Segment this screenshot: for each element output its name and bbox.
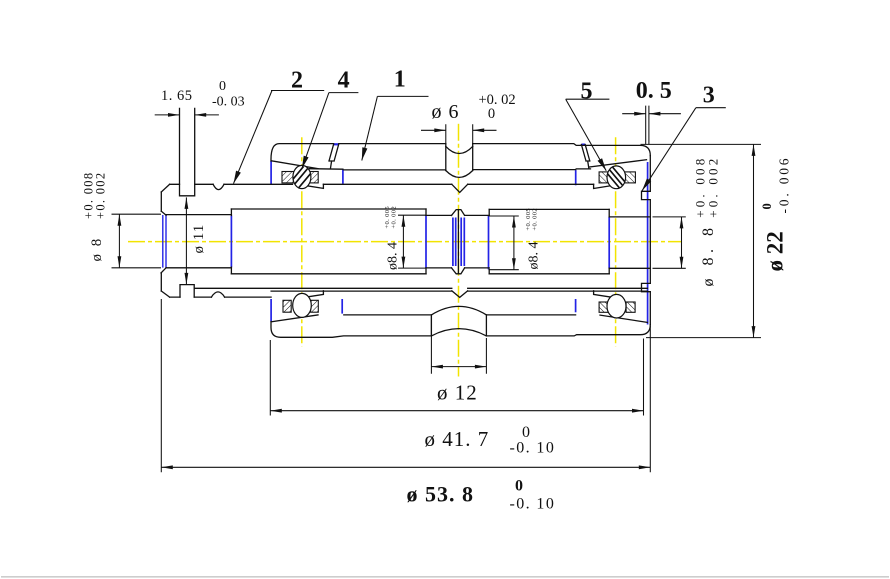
svg-text:-0. 10: -0. 10 xyxy=(510,496,556,513)
retainer slot left xyxy=(329,144,339,169)
svg-text:3: 3 xyxy=(703,83,715,109)
groove wall right xyxy=(472,144,474,171)
blue edge left end chamfer inner xyxy=(162,215,164,268)
svg-text:0: 0 xyxy=(515,478,523,495)
neck bottom lines xyxy=(426,267,489,269)
bearing outer race section top-right xyxy=(599,172,635,183)
svg-text:ø8. 4: ø8. 4 xyxy=(527,242,542,270)
svg-text:ø 22: ø 22 xyxy=(763,231,788,271)
shaft top slant right xyxy=(589,160,646,167)
bearing ball bottom-left xyxy=(293,293,312,317)
neck top chamfer xyxy=(452,210,465,216)
hump arc upper xyxy=(431,306,486,315)
blue edge right shaft step xyxy=(608,217,610,268)
keyseat slot walls 1.65 xyxy=(180,108,195,195)
neck center edge xyxy=(457,210,459,274)
mid rect right bottom xyxy=(489,273,609,275)
dim phi8 arrow line xyxy=(118,214,120,268)
retainer slot right xyxy=(581,145,589,169)
svg-text:-0. 03: -0. 03 xyxy=(212,95,245,110)
left shaft end chamfer bottom xyxy=(161,268,166,273)
svg-text:0. 5: 0. 5 xyxy=(636,78,672,104)
svg-text:ø 11: ø 11 xyxy=(191,224,207,254)
svg-text:+0. 002: +0. 002 xyxy=(531,208,538,231)
inner bottom line y315 xyxy=(344,314,576,316)
dim phi22 arrow line xyxy=(753,144,755,337)
shaft top line y169 xyxy=(310,169,591,170)
dim phi6 arrows xyxy=(421,129,446,131)
svg-text:1. 65: 1. 65 xyxy=(161,88,193,104)
svg-text:2: 2 xyxy=(291,68,303,94)
dim phi12 extensions xyxy=(431,316,486,374)
svg-text:ø 41. 7: ø 41. 7 xyxy=(425,427,490,451)
body top edge y184 xyxy=(170,183,594,185)
top vee notch center xyxy=(452,184,468,192)
right small shaft bottom line xyxy=(609,267,650,269)
svg-text:-0. 10: -0. 10 xyxy=(510,440,556,457)
mid rect left top xyxy=(231,208,426,210)
neck top lines xyxy=(426,214,489,216)
blue edge neck 1 xyxy=(452,218,454,267)
bottom slant left xyxy=(271,315,318,322)
housing sleeve outer top line xyxy=(271,144,650,161)
leader balloon 1 xyxy=(377,95,428,97)
svg-text:-0. 006: -0. 006 xyxy=(777,156,792,214)
bearing ball top-left xyxy=(292,165,312,188)
blue edge sleeve bore left lower xyxy=(270,299,272,322)
svg-text:4: 4 xyxy=(338,68,350,94)
border baseline xyxy=(1,576,889,578)
svg-text:ø8. 4: ø8. 4 xyxy=(386,242,401,270)
body bottom edge y297 xyxy=(170,296,272,298)
blue edge shaft step top right xyxy=(575,170,577,185)
blue tick left slot opening xyxy=(334,143,339,145)
under-ball slant right bottom xyxy=(594,291,614,298)
svg-text:ø 8. 8: ø 8. 8 xyxy=(700,224,717,287)
svg-text:+0. 002: +0. 002 xyxy=(94,172,108,219)
blue edge left end chamfer outer xyxy=(165,215,167,268)
svg-text:0: 0 xyxy=(488,106,495,122)
left shaft end chamfer top xyxy=(161,211,166,215)
svg-text:+0. 002: +0. 002 xyxy=(390,206,397,229)
blue edge shaft step bottom right xyxy=(575,299,577,312)
leader balloon 2 xyxy=(271,90,324,92)
centerline left bearing axis xyxy=(301,137,303,346)
bearing ball bottom-right xyxy=(607,294,626,318)
svg-text:ø 6: ø 6 xyxy=(432,101,460,123)
hump arc lower xyxy=(431,329,486,336)
centerline middle axis xyxy=(458,124,460,377)
small shaft left bottom line xyxy=(166,267,231,269)
centerline right bearing axis xyxy=(615,137,617,346)
dim phi8.4 right arrow line xyxy=(513,216,515,270)
dim phi22 extensions xyxy=(641,144,762,337)
blue edge shaft step bottom left xyxy=(341,299,343,314)
blue edge shaft step top left xyxy=(342,169,344,184)
leader balloon 5 xyxy=(566,98,610,100)
svg-text:1: 1 xyxy=(394,67,406,93)
body top notch arc xyxy=(213,184,224,189)
mid rect right top xyxy=(489,208,609,210)
small shaft left top line xyxy=(166,214,231,216)
dim phi8.4 left arrow line xyxy=(402,215,404,268)
groove arc lower xyxy=(446,171,473,178)
dim 0.5 arrows xyxy=(622,113,646,115)
svg-text:5: 5 xyxy=(581,78,593,104)
neck bottom chamfer xyxy=(452,268,465,274)
dim phi41.7 arrow line xyxy=(270,410,643,412)
body bottom notch arc xyxy=(211,292,224,297)
housing sleeve outer bottom line xyxy=(271,322,650,338)
dim phi8.8 extensions xyxy=(653,217,686,268)
bearing race blocks bottom-left xyxy=(283,300,318,312)
blue edge mid-section left xyxy=(230,216,232,268)
leader balloon 4 xyxy=(329,92,359,94)
left body left face xyxy=(160,192,162,291)
shaft bottom line A xyxy=(195,287,648,289)
svg-text:0: 0 xyxy=(760,203,774,209)
dim 0.5 extension lines xyxy=(646,106,649,145)
bottom slant right xyxy=(600,315,647,322)
mid rect right corners xyxy=(489,209,609,273)
svg-text:0: 0 xyxy=(219,79,226,94)
right end notch lower xyxy=(642,283,651,291)
dim phi53.8 arrow line xyxy=(161,466,650,468)
bottom vee notch center xyxy=(452,291,468,298)
under-ball slant right top xyxy=(594,184,614,188)
mid rect left bottom xyxy=(231,273,426,275)
bearing race blocks bottom-right xyxy=(599,302,635,312)
svg-text:ø 12: ø 12 xyxy=(437,381,478,405)
under-ball slant left bottom xyxy=(303,291,323,298)
leader balloon 3 xyxy=(696,107,726,109)
blue tick right slot opening xyxy=(581,144,585,146)
dim phi8.8 arrow line xyxy=(681,217,683,268)
blue edge right end bore xyxy=(647,162,649,325)
svg-text:+0. 002: +0. 002 xyxy=(706,156,721,218)
groove wall left xyxy=(445,144,447,171)
dim phi8.4 right extensions xyxy=(489,216,519,270)
dim phi6 extension lines xyxy=(446,124,473,143)
dim phi41.7 extensions xyxy=(270,339,643,416)
dim phi8 extension lines xyxy=(112,214,162,268)
dim phi11 arrow line xyxy=(185,197,187,284)
housing right end face xyxy=(649,156,651,325)
shaft top slant left xyxy=(271,161,318,169)
blue edge mid-section right of left rect xyxy=(425,215,427,268)
shaft bottom line B xyxy=(271,290,647,292)
dim phi8.4 left extensions xyxy=(398,215,426,268)
svg-text:0: 0 xyxy=(522,424,530,441)
blue edge neck 3 xyxy=(460,218,462,267)
under-ball slant left top xyxy=(303,184,323,188)
bearing ball top-right xyxy=(607,166,626,189)
right end notch upper xyxy=(642,191,651,199)
svg-text:ø 53. 8: ø 53. 8 xyxy=(407,482,475,507)
svg-text:ø 8: ø 8 xyxy=(89,237,105,262)
centerline horizontal axis xyxy=(128,241,682,243)
hump side walls xyxy=(431,315,486,336)
bottom tab walls xyxy=(180,285,194,298)
groove arc upper xyxy=(446,146,473,153)
dim 1.65 extension handled by slot walls above dimension line xyxy=(155,114,180,116)
left body top chamfer xyxy=(161,184,169,192)
mid rect left corners xyxy=(231,209,426,274)
blue edge neck 2 xyxy=(455,218,457,267)
blue edge right rect left xyxy=(488,216,490,270)
blue edge sleeve bore left upper xyxy=(270,161,272,184)
dim phi53.8 extensions xyxy=(161,299,650,472)
dim phi12 arrow line xyxy=(431,366,486,368)
left body bottom chamfer xyxy=(161,291,169,297)
right small shaft top line xyxy=(609,216,650,218)
bearing outer race section top-left xyxy=(282,172,318,183)
svg-text:+0. 02: +0. 02 xyxy=(479,92,516,108)
blue edge neck 4 xyxy=(463,218,465,267)
